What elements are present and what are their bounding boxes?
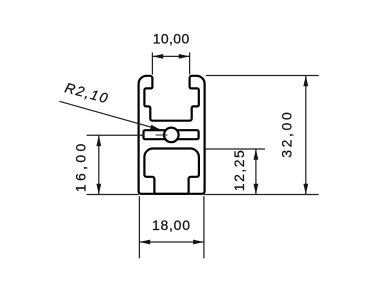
svg-text:18,00: 18,00 xyxy=(152,217,190,233)
svg-text:32,00: 32,00 xyxy=(279,112,295,158)
svg-text:16,00: 16,00 xyxy=(73,143,89,192)
svg-text:12,25: 12,25 xyxy=(231,150,247,191)
svg-text:10,00: 10,00 xyxy=(153,30,190,46)
